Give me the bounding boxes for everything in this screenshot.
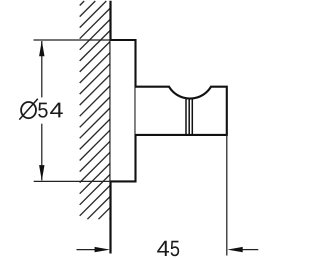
dimension tail right (45) xyxy=(243,249,259,251)
wall hatch xyxy=(80,1,111,219)
dimension line Ø54 upper segment xyxy=(41,41,43,97)
arrowhead right-pointing xyxy=(95,247,110,252)
hook body xyxy=(136,87,227,135)
dimension line Ø54 lower segment xyxy=(41,124,43,181)
extension line right (45) xyxy=(226,135,228,256)
dimension text 54 digit 4 xyxy=(50,103,63,118)
dimension text 54 digit 5 xyxy=(38,103,47,118)
diameter symbol circle xyxy=(21,102,36,118)
groove line left xyxy=(185,98,187,134)
extension line bottom (Ø54) xyxy=(34,180,111,182)
wall line xyxy=(109,1,111,254)
arrowhead up xyxy=(39,41,44,57)
dimension text 45 digit 4 xyxy=(157,241,169,256)
dimension text 45 digit 5 xyxy=(171,241,180,256)
diameter symbol slash xyxy=(19,99,38,120)
extension line top (Ø54) xyxy=(34,39,111,41)
groove line middle xyxy=(188,99,190,135)
dimension tail left (45) xyxy=(77,249,96,251)
arrowhead down xyxy=(39,165,44,181)
groove line right xyxy=(191,98,193,134)
mounting plate xyxy=(111,40,136,181)
arrowhead left-pointing xyxy=(227,247,242,252)
